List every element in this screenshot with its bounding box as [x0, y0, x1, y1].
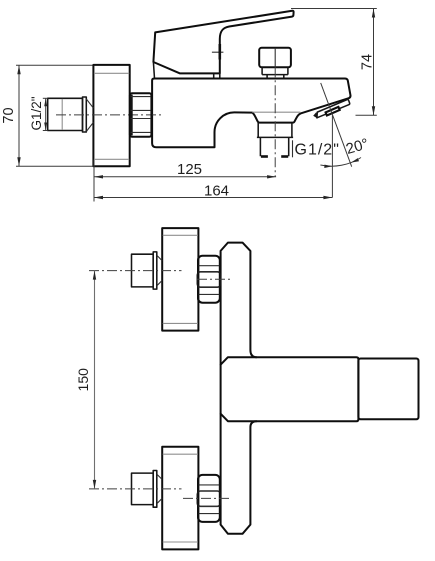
gray tangent line across outlet saddle — [252, 111, 300, 113]
upper hex nut (plan) — [197, 256, 220, 303]
vertical reference through aerator — [331, 115, 333, 197]
lower nut centerline — [183, 497, 232, 499]
20 degree arc — [320, 158, 361, 167]
knob neck — [262, 67, 288, 74]
lower hex nut (plan) — [197, 475, 220, 522]
upper plate chamfer lines — [163, 234, 198, 236]
upper pipe flange — [153, 252, 157, 289]
knob feet — [267, 75, 284, 79]
centerline (side inlet) — [56, 114, 164, 116]
wall plate (side view) — [93, 65, 129, 166]
lower wall plate (plan) — [162, 447, 198, 550]
spout end cap (angled) — [317, 100, 350, 118]
pipe flange — [83, 97, 87, 132]
diverter knob — [259, 48, 291, 67]
dimension 70 — [1, 65, 93, 166]
upper pipe centerline — [89, 270, 182, 272]
upper inlet pipe — [132, 254, 154, 287]
cone lines to plate — [86, 99, 93, 108]
svg-text:20°: 20° — [344, 135, 370, 158]
plate chamfer lines — [94, 72, 129, 74]
outlet thread dashes — [261, 155, 268, 158]
svg-text:70: 70 — [1, 107, 17, 123]
G1/2 label (shower outlet) — [292, 140, 294, 157]
dimension 150 — [75, 271, 96, 489]
lower cone lines — [157, 474, 162, 479]
upper cone lines — [157, 255, 162, 261]
spout end cap (plan) — [358, 359, 418, 420]
handle set-screw marker — [212, 51, 224, 53]
knob / outlet centerline — [274, 48, 276, 67]
lower pipe centerline — [89, 488, 182, 490]
lower pipe flange — [153, 471, 157, 508]
FRONT VIEW GROUP — [75, 228, 419, 549]
shower outlet boss (side view) — [257, 123, 293, 157]
hex union nut (side view) — [130, 93, 152, 136]
svg-text:150: 150 — [75, 368, 91, 392]
spout (plan) — [221, 357, 359, 421]
extension line below plate — [93, 160, 95, 202]
pipe thread line — [61, 99, 63, 130]
body (side view) — [152, 79, 350, 148]
svg-text:164: 164 — [204, 183, 229, 200]
upper wall plate (plan) — [162, 228, 198, 331]
upper nut centerline — [197, 278, 231, 280]
20 degree slant line — [321, 83, 352, 167]
lower plate chamfer lines — [163, 453, 198, 455]
inlet pipe (side view) — [48, 98, 83, 130]
body spur below handle — [153, 62, 154, 79]
lower inlet pipe — [132, 473, 154, 505]
dimension 74 — [291, 9, 377, 116]
central body bar — [221, 243, 257, 534]
dimension 164 — [94, 183, 332, 200]
handle neck lines — [213, 73, 215, 78]
svg-text:G1/2": G1/2" — [29, 96, 44, 130]
dimension 125 — [94, 161, 276, 179]
svg-text:G1/2": G1/2" — [295, 142, 340, 159]
svg-text:125: 125 — [177, 161, 202, 178]
aerator slot (outlined) — [326, 107, 340, 116]
dimension G1/2 (pipe) — [29, 96, 48, 130]
SIDE VIEW GROUP — [1, 9, 377, 202]
lever handle — [153, 11, 293, 74]
svg-text:74: 74 — [360, 54, 376, 70]
cap left end dark triangle — [313, 112, 318, 118]
